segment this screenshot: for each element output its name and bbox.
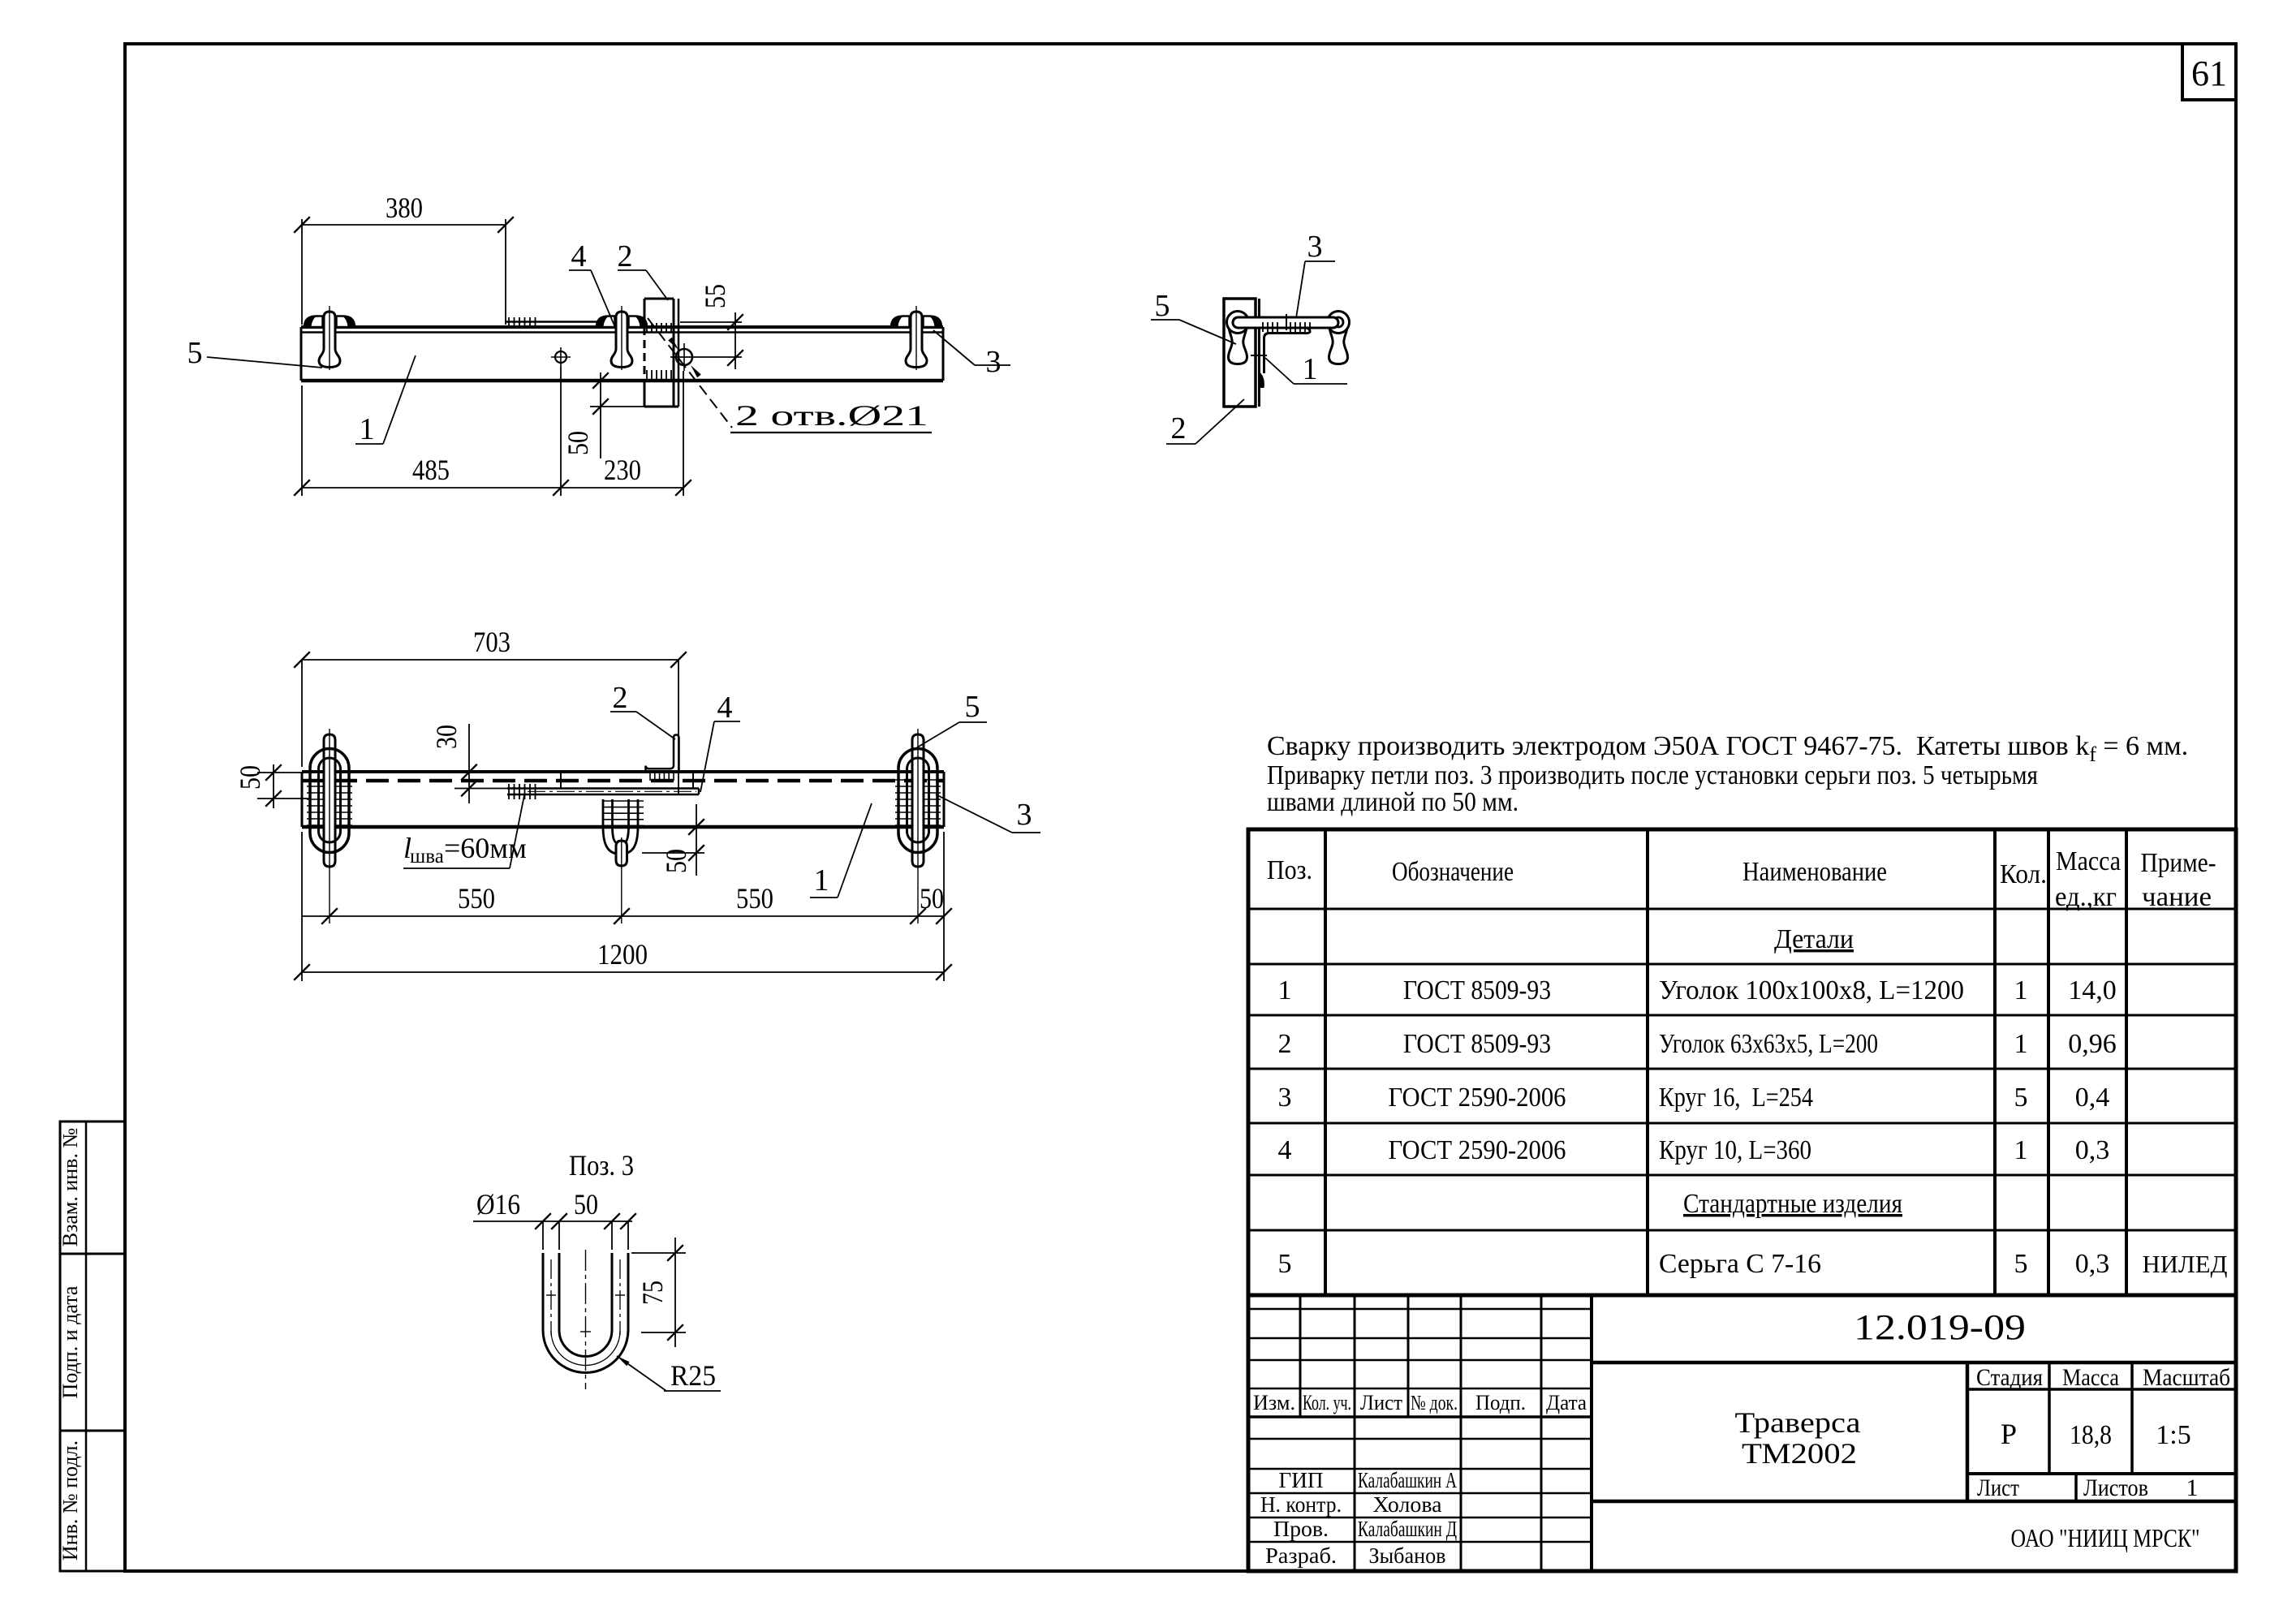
left margin stamp: Взам. инв. № <box>58 1121 125 1254</box>
svg-text:3: 3 <box>1278 1083 1292 1113</box>
svg-text:1: 1 <box>2014 1135 2028 1165</box>
left margin stamp: Инв. № подл. <box>58 1431 125 1571</box>
svg-text:Уголок 63х63х5, L=200: Уголок 63х63х5, L=200 <box>1659 1029 1878 1059</box>
svg-text:75: 75 <box>636 1281 669 1305</box>
svg-text:Листов: Листов <box>2083 1474 2148 1501</box>
svg-text:3: 3 <box>1017 798 1032 832</box>
svg-text:1: 1 <box>360 412 375 446</box>
welding notes text <box>1267 731 2188 817</box>
dimension 30 (front view) <box>430 724 507 803</box>
dimension R25 with leader (detail) <box>617 1356 721 1392</box>
parts table header <box>1267 846 2216 912</box>
svg-text:ГОСТ 2590-2006: ГОСТ 2590-2006 <box>1389 1135 1566 1165</box>
svg-text:Инв. № подл.: Инв. № подл. <box>58 1440 82 1561</box>
svg-text:14,0: 14,0 <box>2068 975 2117 1005</box>
svg-text:Приме-: Приме- <box>2141 848 2216 878</box>
svg-text:5: 5 <box>1278 1249 1292 1279</box>
weld length note l_shva=60mm with leader <box>403 795 527 868</box>
svg-text:50: 50 <box>574 1188 598 1220</box>
svg-text:5: 5 <box>2014 1083 2028 1113</box>
svg-text:Поз.: Поз. <box>1267 855 1312 885</box>
svg-text:550: 550 <box>458 882 495 915</box>
svg-text:1: 1 <box>1303 352 1318 386</box>
svg-text:НИЛЕД: НИЛЕД <box>2143 1250 2228 1278</box>
table row 3 <box>1278 1083 2110 1113</box>
svg-text:Дата: Дата <box>1546 1391 1587 1414</box>
svg-text:1: 1 <box>2014 1029 2028 1059</box>
svg-text:1: 1 <box>2014 975 2028 1005</box>
table row 1 <box>1278 975 2117 1005</box>
svg-text:3: 3 <box>1307 230 1323 264</box>
weld fillets at right shackle (top view) <box>891 316 941 328</box>
svg-text:4: 4 <box>1278 1135 1292 1165</box>
shackle item 5 pin, right (top view) <box>906 306 927 370</box>
svg-text:ед.,кг: ед.,кг <box>2055 882 2117 912</box>
svg-text:Круг 10, L=360: Круг 10, L=360 <box>1659 1135 1811 1165</box>
svg-text:ГОСТ 8509-93: ГОСТ 8509-93 <box>1403 1029 1551 1059</box>
label 1 with leader (top view) <box>355 355 416 446</box>
vertical angle item 2 (side view rectangle) <box>644 299 678 407</box>
svg-text:Масса: Масса <box>2062 1364 2119 1391</box>
dimension 485 / 230 (top view) <box>294 367 691 496</box>
loop item 3 rod (end view) <box>1233 314 1338 332</box>
svg-text:Лист: Лист <box>1360 1391 1402 1414</box>
label 4 with leader (front view) <box>700 691 740 792</box>
table row 4 <box>1278 1135 2110 1165</box>
angle bar item 1 cross-section (end view) <box>1251 328 1310 388</box>
loop item 3 + shackle item 5, left (front view) <box>307 729 352 923</box>
svg-text:5: 5 <box>965 690 980 724</box>
dimension D16 and 50 (detail) <box>473 1188 636 1250</box>
svg-text:0,96: 0,96 <box>2068 1029 2117 1059</box>
svg-text:5: 5 <box>187 336 203 370</box>
svg-text:1: 1 <box>2186 1474 2199 1501</box>
dimension 50 (top view, vertical) <box>562 372 646 458</box>
shackle item 5 pin, middle (top view) <box>611 306 632 370</box>
angle bar item 1 (front view) <box>302 772 944 827</box>
svg-text:3: 3 <box>986 345 1002 379</box>
svg-text:шва: шва <box>410 846 444 867</box>
svg-text:4: 4 <box>571 239 587 273</box>
svg-text:№ док.: № док. <box>1411 1391 1458 1414</box>
svg-text:Холова: Холова <box>1373 1492 1442 1517</box>
table row 2 <box>1278 1029 2117 1059</box>
svg-text:Поз. 3: Поз. 3 <box>569 1149 634 1182</box>
small hole with center mark (top view) <box>551 347 571 367</box>
svg-text:Стандартные изделия: Стандартные изделия <box>1683 1189 1902 1219</box>
svg-text:18,8: 18,8 <box>2070 1420 2112 1450</box>
parts table grid <box>1248 829 2236 1295</box>
rod item 4 on top of bar (side view) <box>506 317 644 328</box>
table row: Стандартные изделия <box>1683 1189 1902 1219</box>
svg-text:Калабашкин Д: Калабашкин Д <box>1358 1517 1457 1541</box>
svg-text:12.019-09: 12.019-09 <box>1854 1307 2026 1347</box>
weld fillets at middle shackle (top view) <box>597 316 647 328</box>
sheet number box 61 <box>2182 44 2236 100</box>
svg-text:2: 2 <box>613 681 628 715</box>
shackle item 5 pin, left (top view) <box>319 306 340 370</box>
label 1 with leader (front view) <box>810 803 872 898</box>
svg-text:Наименование: Наименование <box>1742 857 1887 887</box>
label 3 with leader (front view) <box>936 794 1040 833</box>
svg-text:61: 61 <box>2191 54 2227 93</box>
U-bolt item 3 detail <box>543 1250 628 1389</box>
dimensions 550 550 50 (front view) <box>302 882 952 924</box>
svg-text:Масса: Масса <box>2056 846 2121 876</box>
sheet row <box>1977 1474 2199 1501</box>
dimension 1200 (front view) <box>294 832 952 981</box>
svg-text:ГИП: ГИП <box>1279 1468 1324 1492</box>
dimension 75 (detail) <box>631 1238 686 1347</box>
rod item 4 (front view) <box>507 784 699 799</box>
svg-text:ОАО "НИИЦ МРСК": ОАО "НИИЦ МРСК" <box>2011 1523 2200 1552</box>
svg-text:485: 485 <box>412 454 450 486</box>
dimension 703 (front view) <box>294 626 687 794</box>
label 2 with leader (end view) <box>1166 399 1244 446</box>
svg-text:2: 2 <box>618 239 633 273</box>
label 3 with leader (top view) <box>933 330 1010 379</box>
svg-text:Изм.: Изм. <box>1253 1391 1295 1414</box>
dimension 380 (top view) <box>294 192 514 325</box>
svg-text:Детали: Детали <box>1774 924 1854 954</box>
dimension 50 middle (front view) <box>642 804 704 876</box>
leader 2 otv. D21 with arrows <box>648 318 932 433</box>
label 5 with leader (end view) <box>1151 289 1236 344</box>
svg-text:1:5: 1:5 <box>2156 1420 2190 1450</box>
svg-text:Зыбанов: Зыбанов <box>1369 1543 1446 1568</box>
svg-text:50: 50 <box>660 849 692 873</box>
table row: Детали <box>1774 924 1854 954</box>
svg-text:Приварку петли поз. 3 производ: Приварку петли поз. 3 производить после … <box>1267 760 2038 790</box>
svg-text:0,3: 0,3 <box>2075 1249 2110 1279</box>
svg-text:Лист: Лист <box>1977 1474 2019 1501</box>
svg-text:Н. контр.: Н. контр. <box>1260 1492 1342 1517</box>
title block grid <box>1248 1295 2236 1571</box>
svg-text:ТМ2002: ТМ2002 <box>1742 1437 1857 1470</box>
angle bar item 1 (top/side view) <box>301 327 943 381</box>
svg-text:50: 50 <box>562 431 594 455</box>
dimension 50 left (front view) <box>234 764 310 808</box>
svg-text:Круг 16, L=254: Круг 16, L=254 <box>1659 1083 1813 1113</box>
svg-text:швами длиной по 50 мм.: швами длиной по 50 мм. <box>1267 787 1518 817</box>
dimension 55 (top view) <box>680 284 743 369</box>
label 5 with leader (top view) <box>187 336 323 370</box>
svg-text:2 отв.Ø21: 2 отв.Ø21 <box>735 399 928 432</box>
hole position marks on hidden line (front view) <box>561 771 693 789</box>
label 3 with leader (end view) <box>1296 230 1335 318</box>
svg-text:0,4: 0,4 <box>2075 1083 2110 1113</box>
loop item 3 + shackle item 5, middle (front view) <box>602 799 644 923</box>
svg-text:Кол. уч.: Кол. уч. <box>1303 1391 1351 1414</box>
vertical angle item 2 (end view) <box>1224 299 1260 407</box>
svg-text:5: 5 <box>2014 1249 2028 1279</box>
table row 5 <box>1278 1249 2228 1279</box>
svg-text:5: 5 <box>1155 289 1170 323</box>
svg-text:Серьга С 7-16: Серьга С 7-16 <box>1659 1249 1821 1279</box>
svg-text:ГОСТ 8509-93: ГОСТ 8509-93 <box>1403 975 1551 1005</box>
svg-text:Обозначение: Обозначение <box>1392 857 1514 887</box>
svg-text:2: 2 <box>1171 411 1187 446</box>
svg-text:Подп. и дата: Подп. и дата <box>58 1285 82 1398</box>
svg-text:4: 4 <box>717 691 733 725</box>
label 5 with leader (front view) <box>917 690 987 747</box>
svg-text:Пров.: Пров. <box>1273 1517 1329 1541</box>
label 2 with leader (top view) <box>618 239 669 300</box>
stage/mass/scale values <box>2001 1418 2191 1450</box>
svg-text:чание: чание <box>2142 882 2212 912</box>
svg-text:Кол.: Кол. <box>2000 859 2047 889</box>
svg-text:Стадия: Стадия <box>1976 1364 2043 1391</box>
svg-text:Ø16: Ø16 <box>476 1188 520 1220</box>
svg-text:Подп.: Подп. <box>1475 1391 1526 1414</box>
svg-text:50: 50 <box>920 882 944 915</box>
svg-text:Разраб.: Разраб. <box>1265 1543 1337 1568</box>
svg-text:ГОСТ 2590-2006: ГОСТ 2590-2006 <box>1389 1083 1566 1113</box>
svg-text:Масштаб: Масштаб <box>2143 1364 2230 1391</box>
title block small labels <box>1253 1391 1587 1414</box>
signature rows <box>1260 1468 1457 1568</box>
svg-text:Взам. инв. №: Взам. инв. № <box>58 1128 82 1247</box>
svg-text:550: 550 <box>736 882 773 915</box>
loop item 3 + shackle item 5, right (front view) <box>895 729 941 923</box>
svg-text:Траверса: Траверса <box>1735 1406 1861 1439</box>
svg-text:0,3: 0,3 <box>2075 1135 2110 1165</box>
svg-text:1: 1 <box>1278 975 1292 1005</box>
shackle item 5 right (end view) <box>1328 312 1350 364</box>
svg-text:2: 2 <box>1278 1029 1292 1059</box>
svg-text:50: 50 <box>234 765 266 790</box>
stage/mass/scale header <box>1976 1364 2230 1391</box>
shackle item 5 left (end view) <box>1227 312 1249 364</box>
svg-text:55: 55 <box>699 284 731 308</box>
svg-text:=60мм: =60мм <box>444 832 527 864</box>
svg-text:1200: 1200 <box>597 938 648 971</box>
weld fillets at left shackle (top view) <box>304 316 355 328</box>
svg-text:1: 1 <box>814 863 829 898</box>
svg-text:30: 30 <box>430 725 463 749</box>
svg-text:703: 703 <box>473 626 510 658</box>
product name Traversa TM2002 <box>1735 1406 1861 1470</box>
svg-text:Уголок 100х100х8, L=1200: Уголок 100х100х8, L=1200 <box>1659 975 1964 1005</box>
svg-text:230: 230 <box>604 454 641 486</box>
svg-text:R25: R25 <box>670 1359 716 1392</box>
label 2 with leader (front view) <box>610 681 675 739</box>
svg-text:Р: Р <box>2001 1418 2017 1450</box>
hole 2 otv. D21 with center mark (top view) <box>670 343 742 371</box>
svg-text:Калабашкин А: Калабашкин А <box>1358 1468 1457 1492</box>
label 1 with leader (end view) <box>1265 352 1347 386</box>
svg-text:380: 380 <box>386 192 423 224</box>
vertical angle item 2 (front view L profile) <box>646 735 679 781</box>
left margin stamp: Подп. и дата <box>58 1254 125 1431</box>
label 4 with leader (top view) <box>569 239 614 325</box>
